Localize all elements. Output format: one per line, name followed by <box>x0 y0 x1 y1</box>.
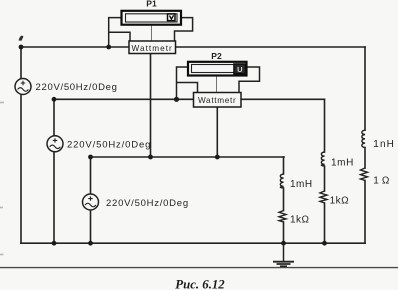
svg-text:U: U <box>237 65 242 74</box>
wire middle branch x=324.5 middle <box>324 166 326 191</box>
node marker top-left <box>19 36 24 41</box>
svg-text:220V/50Hz/0Deg: 220V/50Hz/0Deg <box>106 198 189 209</box>
scan smudges left edge <box>0 103 4 255</box>
node V2 on bottom bus <box>52 241 57 246</box>
wire top bus y=47 <box>21 46 365 48</box>
svg-text:1mH: 1mH <box>290 179 313 190</box>
svg-text:Wattmetr: Wattmetr <box>132 44 173 53</box>
wire bottom bus y=243 <box>21 242 365 244</box>
svg-text:Wattmetr: Wattmetr <box>198 96 237 105</box>
svg-text:P2: P2 <box>211 51 222 61</box>
wattmeter P2 leads <box>177 67 260 99</box>
wire phase3 y=157 <box>91 156 285 158</box>
wire vertical x=90.5 source V3 branch <box>90 157 92 243</box>
figure bottom rule <box>0 267 398 269</box>
svg-text:1Ω: 1Ω <box>373 176 392 187</box>
resistor R2 1kohm middle branch <box>320 191 327 203</box>
wire left RL branch x=283.5 middle <box>283 188 285 211</box>
wire phase2 y=99.3 <box>54 98 325 100</box>
svg-text:1kΩ: 1kΩ <box>330 195 350 206</box>
svg-text:Рис. 6.12: Рис. 6.12 <box>175 278 225 290</box>
wire middle branch x=324.5 upper <box>324 99 326 152</box>
wire right branch x=365 lower <box>364 181 366 244</box>
wire middle branch x=324.5 lower <box>324 203 326 243</box>
wattmeter P1 body <box>122 11 182 25</box>
wire vertical x=54 source V2 branch <box>53 99 55 243</box>
wattmeter P2 body <box>188 62 247 76</box>
svg-text:1kΩ: 1kΩ <box>290 215 310 226</box>
node middle branch on bottom bus <box>322 241 327 246</box>
svg-text:1nH: 1nH <box>373 139 395 150</box>
svg-text:220V/50Hz/0Deg: 220V/50Hz/0Deg <box>36 82 118 93</box>
node phase3 corner <box>88 155 93 160</box>
node P1 pin on phase3 wire <box>148 155 153 160</box>
inductor L1 1mH left RL branch <box>280 174 283 188</box>
wire left RL branch x=283.5 upper <box>283 157 285 174</box>
wire right branch x=365 upper <box>364 47 366 130</box>
wattmeter P1 name box Wattmetr <box>129 41 176 54</box>
svg-text:1mH: 1mH <box>331 157 354 168</box>
node P1 left lead on top bus <box>106 45 111 50</box>
resistor R1 1kohm left RL branch <box>279 211 286 223</box>
node P2 left lead on phase2 wire <box>174 97 179 102</box>
svg-text:220V/50Hz/0Deg: 220V/50Hz/0Deg <box>67 140 151 151</box>
wire P2 bottom pin x=217.3 <box>216 107 218 157</box>
node phase2 corner <box>52 97 57 102</box>
node P2 pin on phase3 wire <box>215 155 220 160</box>
source V1 220V/50Hz/0Deg <box>15 79 31 95</box>
wire left vertical x=21 <box>20 47 22 243</box>
wattmeter P2 name box Wattmetr <box>194 93 242 108</box>
wire P1 bottom pin x=150.5 <box>150 54 152 158</box>
wattmeter P1 leads <box>109 18 193 47</box>
resistor R3 1ohm right branch <box>361 168 368 181</box>
inductor L3 1nH right branch <box>362 130 365 147</box>
inductor L2 1mH middle branch <box>321 152 324 166</box>
node V3 on bottom bus <box>88 241 93 246</box>
svg-text:P1: P1 <box>146 0 157 8</box>
wire right branch x=365 middle <box>364 148 366 169</box>
wire left RL branch x=283.5 lower <box>283 222 285 243</box>
node top-left corner <box>19 45 24 50</box>
node ground on bottom bus <box>281 241 286 246</box>
ground <box>273 243 294 266</box>
source V2 220V/50Hz/0Deg <box>47 136 63 152</box>
source V3 220V/50Hz/0Deg <box>83 194 99 210</box>
